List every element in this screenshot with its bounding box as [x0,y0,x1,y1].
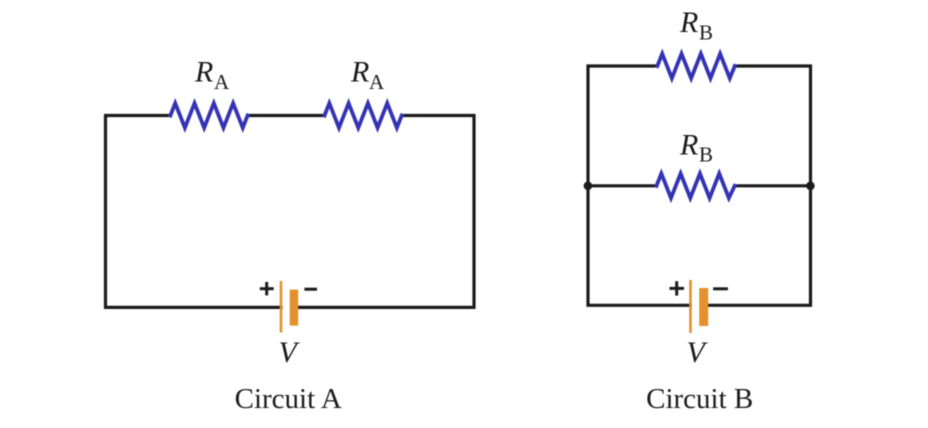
svg-text:B: B [699,21,713,45]
svg-text:Circuit B: Circuit B [646,383,753,415]
svg-text:Circuit A: Circuit A [235,383,342,415]
resistor RB (middle, circuit B) [657,174,735,199]
wire: circuit B outer loop [588,66,811,305]
minus sign (circuit A battery) [304,288,317,291]
battery V (circuit B): short thick negative plate [699,288,708,326]
label RA (left) [194,56,230,94]
wire: circuit B middle branch (right segment) [735,184,811,187]
wire: circuit B middle branch (left segment) [588,184,657,187]
svg-text:B: B [699,143,713,167]
minus sign (circuit B battery) [713,287,728,290]
svg-text:V: V [279,336,301,369]
battery V (circuit A): long thin positive plate [280,281,283,333]
svg-text:V: V [687,336,709,369]
plus sign (circuit A battery) [260,282,274,295]
svg-text:R: R [679,128,698,161]
battery V (circuit A): short thick negative plate [290,290,299,326]
svg-text:A: A [214,70,230,94]
svg-text:A: A [369,70,385,94]
label RA (right) [350,56,385,94]
resistor RA (left, circuit A) [170,103,247,128]
plus sign (circuit B battery) [670,281,685,295]
svg-text:R: R [679,6,698,39]
battery V (circuit B): long thin positive plate [689,280,692,333]
node junction dot (right) [806,182,815,191]
node junction dot (left) [584,182,593,191]
wire: circuit A loop (left, right, top and bottom segments) [106,116,475,308]
label RB (top) [679,6,713,44]
resistor RB (top, circuit B) [657,54,734,79]
svg-text:R: R [194,56,213,89]
label RB (middle) [679,128,713,166]
resistor RA (right, circuit A) [325,103,402,128]
svg-text:R: R [350,56,369,89]
